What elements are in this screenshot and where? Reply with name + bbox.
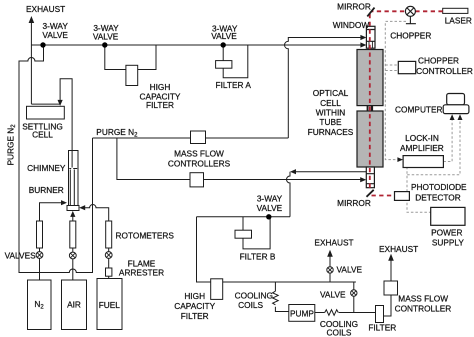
svg-text:CHIMNEY: CHIMNEY: [27, 163, 66, 173]
svg-text:PURGE N2: PURGE N2: [96, 127, 138, 139]
svg-text:HIGH: HIGH: [150, 82, 171, 92]
svg-text:CELL: CELL: [32, 129, 53, 139]
svg-text:EXHAUST: EXHAUST: [379, 244, 418, 254]
svg-text:VALVES: VALVES: [5, 250, 37, 260]
svg-text:VALVE: VALVE: [337, 265, 363, 275]
svg-text:VALVE: VALVE: [320, 289, 346, 299]
svg-text:ARRESTER: ARRESTER: [119, 268, 164, 278]
svg-text:COOLING: COOLING: [235, 290, 273, 300]
svg-text:LASER: LASER: [445, 16, 472, 26]
svg-text:WINDOW: WINDOW: [333, 20, 370, 30]
svg-text:FILTER B: FILTER B: [240, 251, 276, 261]
svg-text:CHOPPER: CHOPPER: [418, 56, 459, 66]
svg-text:AMPLIFIER: AMPLIFIER: [400, 143, 444, 153]
svg-text:FUEL: FUEL: [99, 300, 121, 310]
svg-text:EXHAUST: EXHAUST: [26, 4, 65, 14]
svg-text:CONTROLLER: CONTROLLER: [395, 304, 452, 314]
svg-text:VALVE: VALVE: [93, 31, 119, 41]
svg-text:TUBE: TUBE: [319, 117, 342, 127]
svg-text:VALVE: VALVE: [211, 31, 237, 41]
svg-text:PURGE N2: PURGE N2: [6, 124, 18, 166]
svg-text:COMPUTER: COMPUTER: [395, 105, 442, 115]
svg-text:MASS FLOW: MASS FLOW: [174, 149, 224, 159]
svg-text:FILTER: FILTER: [146, 100, 174, 110]
svg-text:ROTOMETERS: ROTOMETERS: [116, 231, 175, 241]
svg-text:VALVE: VALVE: [42, 30, 68, 40]
svg-text:3-WAY: 3-WAY: [257, 194, 283, 204]
svg-text:AIR: AIR: [67, 300, 81, 310]
svg-text:VALVE: VALVE: [257, 203, 283, 213]
svg-text:FILTER A: FILTER A: [216, 80, 252, 90]
svg-text:CHOPPER: CHOPPER: [390, 31, 431, 41]
svg-text:FILTER: FILTER: [368, 322, 396, 332]
svg-text:DETECTOR: DETECTOR: [415, 192, 460, 202]
svg-text:POWER: POWER: [431, 228, 462, 238]
svg-text:CELL: CELL: [320, 98, 341, 108]
svg-text:BURNER: BURNER: [29, 185, 64, 195]
svg-text:PUMP: PUMP: [290, 308, 314, 318]
svg-text:PHOTODIODE: PHOTODIODE: [411, 182, 467, 192]
svg-text:COILS: COILS: [327, 328, 352, 337]
svg-text:CONTROLLER: CONTROLLER: [416, 66, 473, 76]
svg-text:FURNACES: FURNACES: [308, 127, 354, 137]
svg-text:FILTER: FILTER: [181, 311, 209, 321]
svg-text:MASS FLOW: MASS FLOW: [398, 294, 448, 304]
svg-text:LOCK-IN: LOCK-IN: [405, 133, 439, 143]
svg-text:MIRROR: MIRROR: [337, 198, 371, 208]
svg-text:OPTICAL: OPTICAL: [313, 88, 349, 98]
svg-text:MIRROR: MIRROR: [337, 1, 371, 11]
svg-text:COILS: COILS: [238, 300, 263, 310]
svg-text:SUPPLY: SUPPLY: [432, 237, 465, 247]
svg-text:CONTROLLERS: CONTROLLERS: [168, 158, 231, 168]
svg-text:EXHAUST: EXHAUST: [314, 238, 353, 248]
svg-text:CAPACITY: CAPACITY: [174, 301, 215, 311]
svg-text:HIGH: HIGH: [184, 291, 205, 301]
